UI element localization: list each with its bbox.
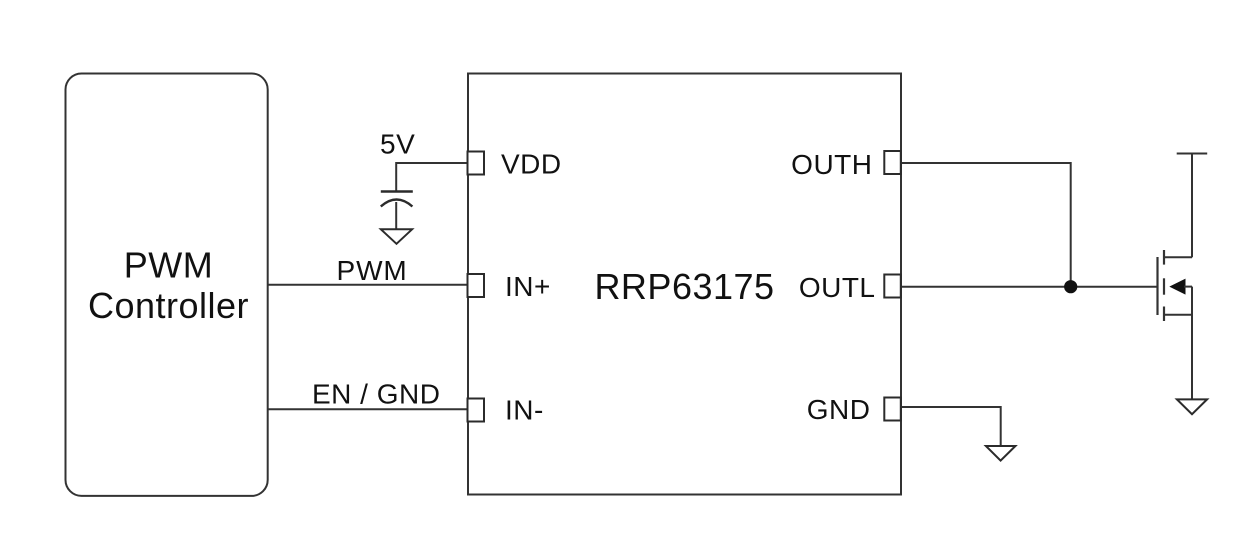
pin box OUTL: [884, 275, 901, 298]
svg-text:GND: GND: [807, 394, 871, 425]
svg-text:RRP63175: RRP63175: [594, 266, 774, 307]
transistor Q1 channel segment middle: [1163, 278, 1165, 294]
transistor Q1 source tab: [1164, 314, 1192, 316]
ground (MOSFET source): [1177, 399, 1207, 414]
wire GND pin to ground: [901, 407, 1001, 446]
svg-text:5V: 5V: [380, 129, 415, 160]
capacitor C1 top plate: [381, 190, 413, 192]
wire OUTH to node: [901, 163, 1071, 287]
svg-text:PWM: PWM: [337, 255, 408, 286]
capacitor C1 curved plate: [381, 200, 413, 207]
svg-text:VDD: VDD: [501, 149, 562, 180]
wire drain up: [1191, 154, 1193, 258]
junction node dot: [1064, 280, 1077, 293]
ground (capacitor): [381, 229, 412, 244]
wire source down: [1191, 287, 1193, 400]
transistor Q1 channel segment top: [1163, 250, 1165, 265]
svg-text:PWM: PWM: [124, 245, 213, 286]
pin box OUTH: [884, 151, 901, 174]
transistor Q1 body lead: [1184, 286, 1192, 288]
svg-text:OUTH: OUTH: [791, 149, 872, 180]
capacitor C1 lead wire: [395, 202, 397, 229]
supply terminal bar: [1177, 153, 1208, 155]
svg-text:Controller: Controller: [88, 285, 249, 326]
pin box VDD: [468, 152, 485, 175]
pin box GND: [884, 398, 901, 421]
PWM controller box: [66, 74, 268, 496]
pin box IN-: [468, 399, 485, 422]
svg-text:IN+: IN+: [505, 271, 551, 302]
transistor Q1 gate plate: [1156, 257, 1158, 315]
transistor Q1 body arrow: [1169, 279, 1185, 295]
transistor Q1 channel segment bottom: [1163, 307, 1165, 322]
wire 5V to VDD: [396, 163, 467, 192]
wire OUTL to gate: [901, 286, 1158, 288]
transistor Q1 drain tab: [1164, 256, 1192, 258]
pin box IN+: [468, 274, 485, 297]
svg-text:OUTL: OUTL: [799, 272, 876, 303]
wire PWM net: [268, 284, 468, 286]
IC U1 box: [468, 74, 901, 495]
svg-text:EN / GND: EN / GND: [312, 379, 440, 410]
ground (GND pin): [986, 446, 1016, 461]
svg-text:IN-: IN-: [505, 395, 544, 426]
wire EN/GND net: [268, 408, 468, 410]
